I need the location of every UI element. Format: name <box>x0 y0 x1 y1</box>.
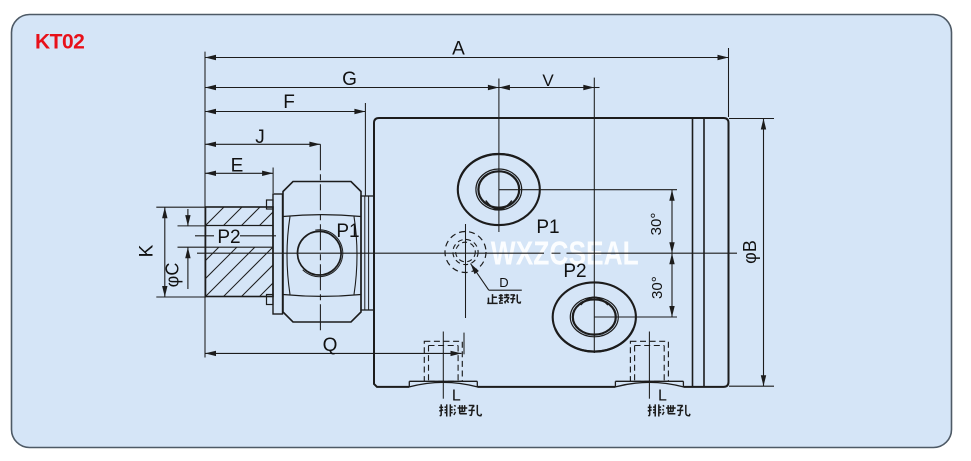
svg-text:KT02: KT02 <box>35 31 84 54</box>
svg-text:V: V <box>542 71 554 90</box>
svg-text:G: G <box>342 69 357 90</box>
svg-text:K: K <box>137 244 158 257</box>
svg-text:φC: φC <box>163 263 183 288</box>
svg-text:J: J <box>255 127 265 148</box>
svg-text:φB: φB <box>740 240 760 264</box>
svg-text:P1: P1 <box>536 217 559 238</box>
svg-text:F: F <box>283 92 295 113</box>
svg-text:E: E <box>231 156 244 177</box>
svg-text:L: L <box>658 388 667 405</box>
svg-text:30°: 30° <box>649 276 666 299</box>
svg-text:Q: Q <box>323 335 338 356</box>
svg-text:30°: 30° <box>648 213 665 236</box>
svg-text:P1: P1 <box>336 221 359 242</box>
svg-text:D: D <box>499 275 508 290</box>
svg-text:P2: P2 <box>217 227 240 248</box>
svg-text:A: A <box>452 39 465 60</box>
svg-text:P2: P2 <box>563 261 586 282</box>
svg-text:L: L <box>452 388 461 405</box>
